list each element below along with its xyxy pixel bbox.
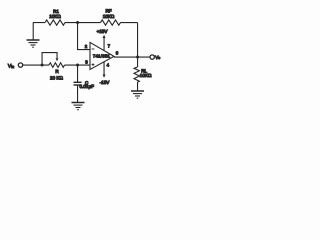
node C junction dot	[76, 64, 79, 67]
resistor RF	[101, 20, 121, 25]
svg-text:0.01µF: 0.01µF	[80, 84, 95, 89]
wire pin 4 power	[103, 62, 105, 76]
svg-text:+15V: +15V	[97, 29, 109, 34]
wire output from pin 6	[114, 56, 150, 58]
wire node A down to inverting input	[78, 23, 90, 50]
wire R to node C	[65, 64, 91, 66]
wire RF right to feedback corner	[121, 22, 138, 24]
wire feedback vertical down to output node	[137, 23, 139, 58]
potentiometer wiper arrowhead	[56, 58, 59, 61]
ground (left, under R1 input)	[27, 40, 40, 47]
wire RL to ground	[137, 82, 139, 91]
svg-text:Vin: Vin	[8, 63, 14, 69]
svg-text:-15V: -15V	[100, 80, 111, 85]
ground (under RL)	[131, 91, 144, 98]
wire output node down to RL	[137, 57, 139, 67]
svg-text:20 KΩ: 20 KΩ	[50, 75, 63, 80]
svg-text:10KΩ: 10KΩ	[140, 73, 152, 78]
wire top-left from ground corner to R1	[33, 22, 45, 24]
wire ground drop	[32, 23, 34, 40]
resistor RL	[134, 67, 139, 82]
svg-text:10KΩ: 10KΩ	[49, 14, 61, 19]
terminal Vin	[18, 63, 22, 67]
svg-text:Vo: Vo	[155, 55, 160, 60]
wire Vin to node B	[23, 64, 49, 66]
capacitor C	[74, 82, 82, 85]
op-amp plus sign (pin 3 input)	[92, 63, 95, 66]
op-amp U1 741/351 triangle	[90, 42, 114, 69]
resistor R1	[45, 20, 65, 25]
svg-text:10KΩ: 10KΩ	[103, 14, 115, 19]
terminal Vo	[150, 55, 154, 59]
wire pin 7 power	[103, 37, 105, 50]
+15V arrowhead up	[103, 35, 106, 38]
resistor R (pot)	[49, 63, 65, 68]
node D output junction dot	[136, 56, 139, 59]
wire capacitor to ground	[77, 86, 79, 103]
node B junction dot	[41, 64, 44, 67]
op-amp minus sign (pin 2 input)	[92, 48, 95, 50]
-15V arrowhead down	[103, 75, 106, 78]
wire R1 to node A	[65, 22, 101, 24]
potentiometer wiper loop wire	[42, 53, 57, 66]
ground (under capacitor)	[72, 103, 85, 110]
wire node C down to capacitor	[77, 65, 79, 82]
node A junction dot	[76, 21, 79, 24]
svg-text:741/351: 741/351	[93, 54, 111, 59]
